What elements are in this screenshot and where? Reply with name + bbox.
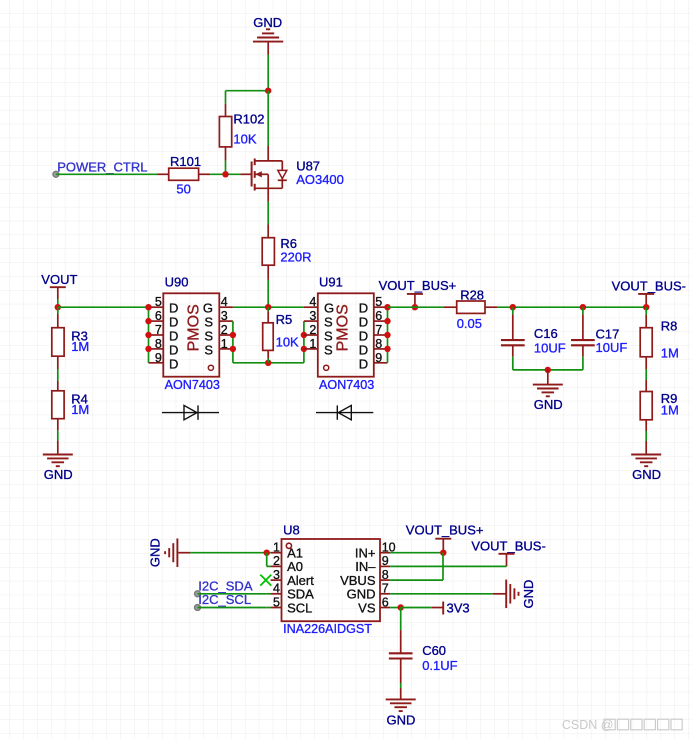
svg-text:R28: R28 <box>460 287 484 302</box>
svg-text:D: D <box>359 315 368 330</box>
svg-text:POWER_CTRL: POWER_CTRL <box>57 159 147 174</box>
svg-text:1M: 1M <box>661 402 679 417</box>
svg-text:1: 1 <box>309 337 316 351</box>
svg-text:GND: GND <box>44 467 73 482</box>
svg-text:7: 7 <box>375 323 382 337</box>
svg-text:U8: U8 <box>283 523 300 538</box>
svg-text:U91: U91 <box>319 275 343 290</box>
svg-text:10UF: 10UF <box>596 340 628 355</box>
svg-text:PMOS: PMOS <box>186 304 203 351</box>
svg-text:GND: GND <box>521 580 536 609</box>
svg-text:D: D <box>169 301 178 316</box>
svg-text:6: 6 <box>375 309 382 323</box>
svg-text:D: D <box>359 301 368 316</box>
svg-text:0.1UF: 0.1UF <box>422 658 457 673</box>
svg-text:S: S <box>324 315 333 330</box>
svg-text:10K: 10K <box>233 131 256 146</box>
svg-text:VOUT_BUS+: VOUT_BUS+ <box>379 278 457 293</box>
svg-text:10K: 10K <box>276 335 299 350</box>
svg-text:0.05: 0.05 <box>457 316 482 331</box>
svg-text:8: 8 <box>375 337 382 351</box>
svg-text:3: 3 <box>221 309 228 323</box>
svg-text:G: G <box>203 301 213 316</box>
svg-text:PMOS: PMOS <box>335 304 352 351</box>
svg-text:7: 7 <box>155 323 162 337</box>
svg-text:AON7403: AON7403 <box>165 378 220 392</box>
svg-text:50: 50 <box>176 181 190 196</box>
svg-text:5: 5 <box>273 595 280 609</box>
svg-text:1: 1 <box>273 541 280 555</box>
svg-text:C16: C16 <box>534 326 558 341</box>
svg-text:2: 2 <box>273 554 280 568</box>
svg-text:D: D <box>359 329 368 344</box>
svg-text:3: 3 <box>273 568 280 582</box>
svg-text:D: D <box>359 356 368 371</box>
svg-text:S: S <box>204 315 213 330</box>
svg-text:4: 4 <box>221 295 228 309</box>
svg-text:1M: 1M <box>71 339 89 354</box>
svg-text:GND: GND <box>148 538 163 567</box>
svg-text:3: 3 <box>309 309 316 323</box>
svg-text:C60: C60 <box>422 643 446 658</box>
svg-text:4: 4 <box>309 295 316 309</box>
svg-text:G: G <box>324 301 334 316</box>
svg-text:9: 9 <box>382 554 389 568</box>
svg-text:3V3: 3V3 <box>447 601 470 616</box>
svg-text:D: D <box>169 356 178 371</box>
svg-text:AO3400: AO3400 <box>296 172 344 187</box>
svg-text:SCL: SCL <box>287 600 312 615</box>
svg-text:9: 9 <box>375 351 382 365</box>
svg-text:6: 6 <box>155 309 162 323</box>
svg-text:D: D <box>169 342 178 357</box>
svg-text:1: 1 <box>221 337 228 351</box>
svg-text:5: 5 <box>155 295 162 309</box>
svg-text:S: S <box>324 342 333 357</box>
svg-text:D: D <box>169 329 178 344</box>
svg-text:R8: R8 <box>661 319 678 334</box>
svg-text:R101: R101 <box>170 154 201 169</box>
svg-text:S: S <box>324 329 333 344</box>
svg-text:R5: R5 <box>276 312 293 327</box>
svg-text:GND: GND <box>253 15 282 30</box>
svg-text:4: 4 <box>273 582 280 596</box>
svg-text:8: 8 <box>155 337 162 351</box>
svg-text:U90: U90 <box>165 275 189 290</box>
svg-text:5: 5 <box>375 295 382 309</box>
svg-text:GND: GND <box>386 712 415 727</box>
svg-text:1M: 1M <box>71 402 89 417</box>
svg-text:7: 7 <box>382 582 389 596</box>
svg-text:R102: R102 <box>233 112 264 127</box>
svg-text:GND: GND <box>632 467 661 482</box>
svg-text:VOUT_BUS-: VOUT_BUS- <box>612 278 686 293</box>
svg-text:S: S <box>204 329 213 344</box>
svg-text:8: 8 <box>382 568 389 582</box>
svg-text:6: 6 <box>382 595 389 609</box>
svg-text:2: 2 <box>309 323 316 337</box>
svg-text:D: D <box>359 342 368 357</box>
svg-text:AON7403: AON7403 <box>319 378 374 392</box>
svg-text:VOUT: VOUT <box>41 272 77 287</box>
svg-text:1M: 1M <box>661 346 679 361</box>
svg-text:S: S <box>204 342 213 357</box>
svg-text:9: 9 <box>155 351 162 365</box>
svg-text:D: D <box>169 315 178 330</box>
svg-text:2: 2 <box>221 323 228 337</box>
svg-text:10UF: 10UF <box>534 340 566 355</box>
svg-text:GND: GND <box>534 397 563 412</box>
svg-text:VS: VS <box>358 600 376 615</box>
svg-text:VOUT_BUS-: VOUT_BUS- <box>471 538 545 553</box>
svg-text:220R: 220R <box>280 250 311 265</box>
svg-text:VOUT_BUS+: VOUT_BUS+ <box>406 522 484 537</box>
svg-text:INA226AIDGST: INA226AIDGST <box>283 622 372 636</box>
